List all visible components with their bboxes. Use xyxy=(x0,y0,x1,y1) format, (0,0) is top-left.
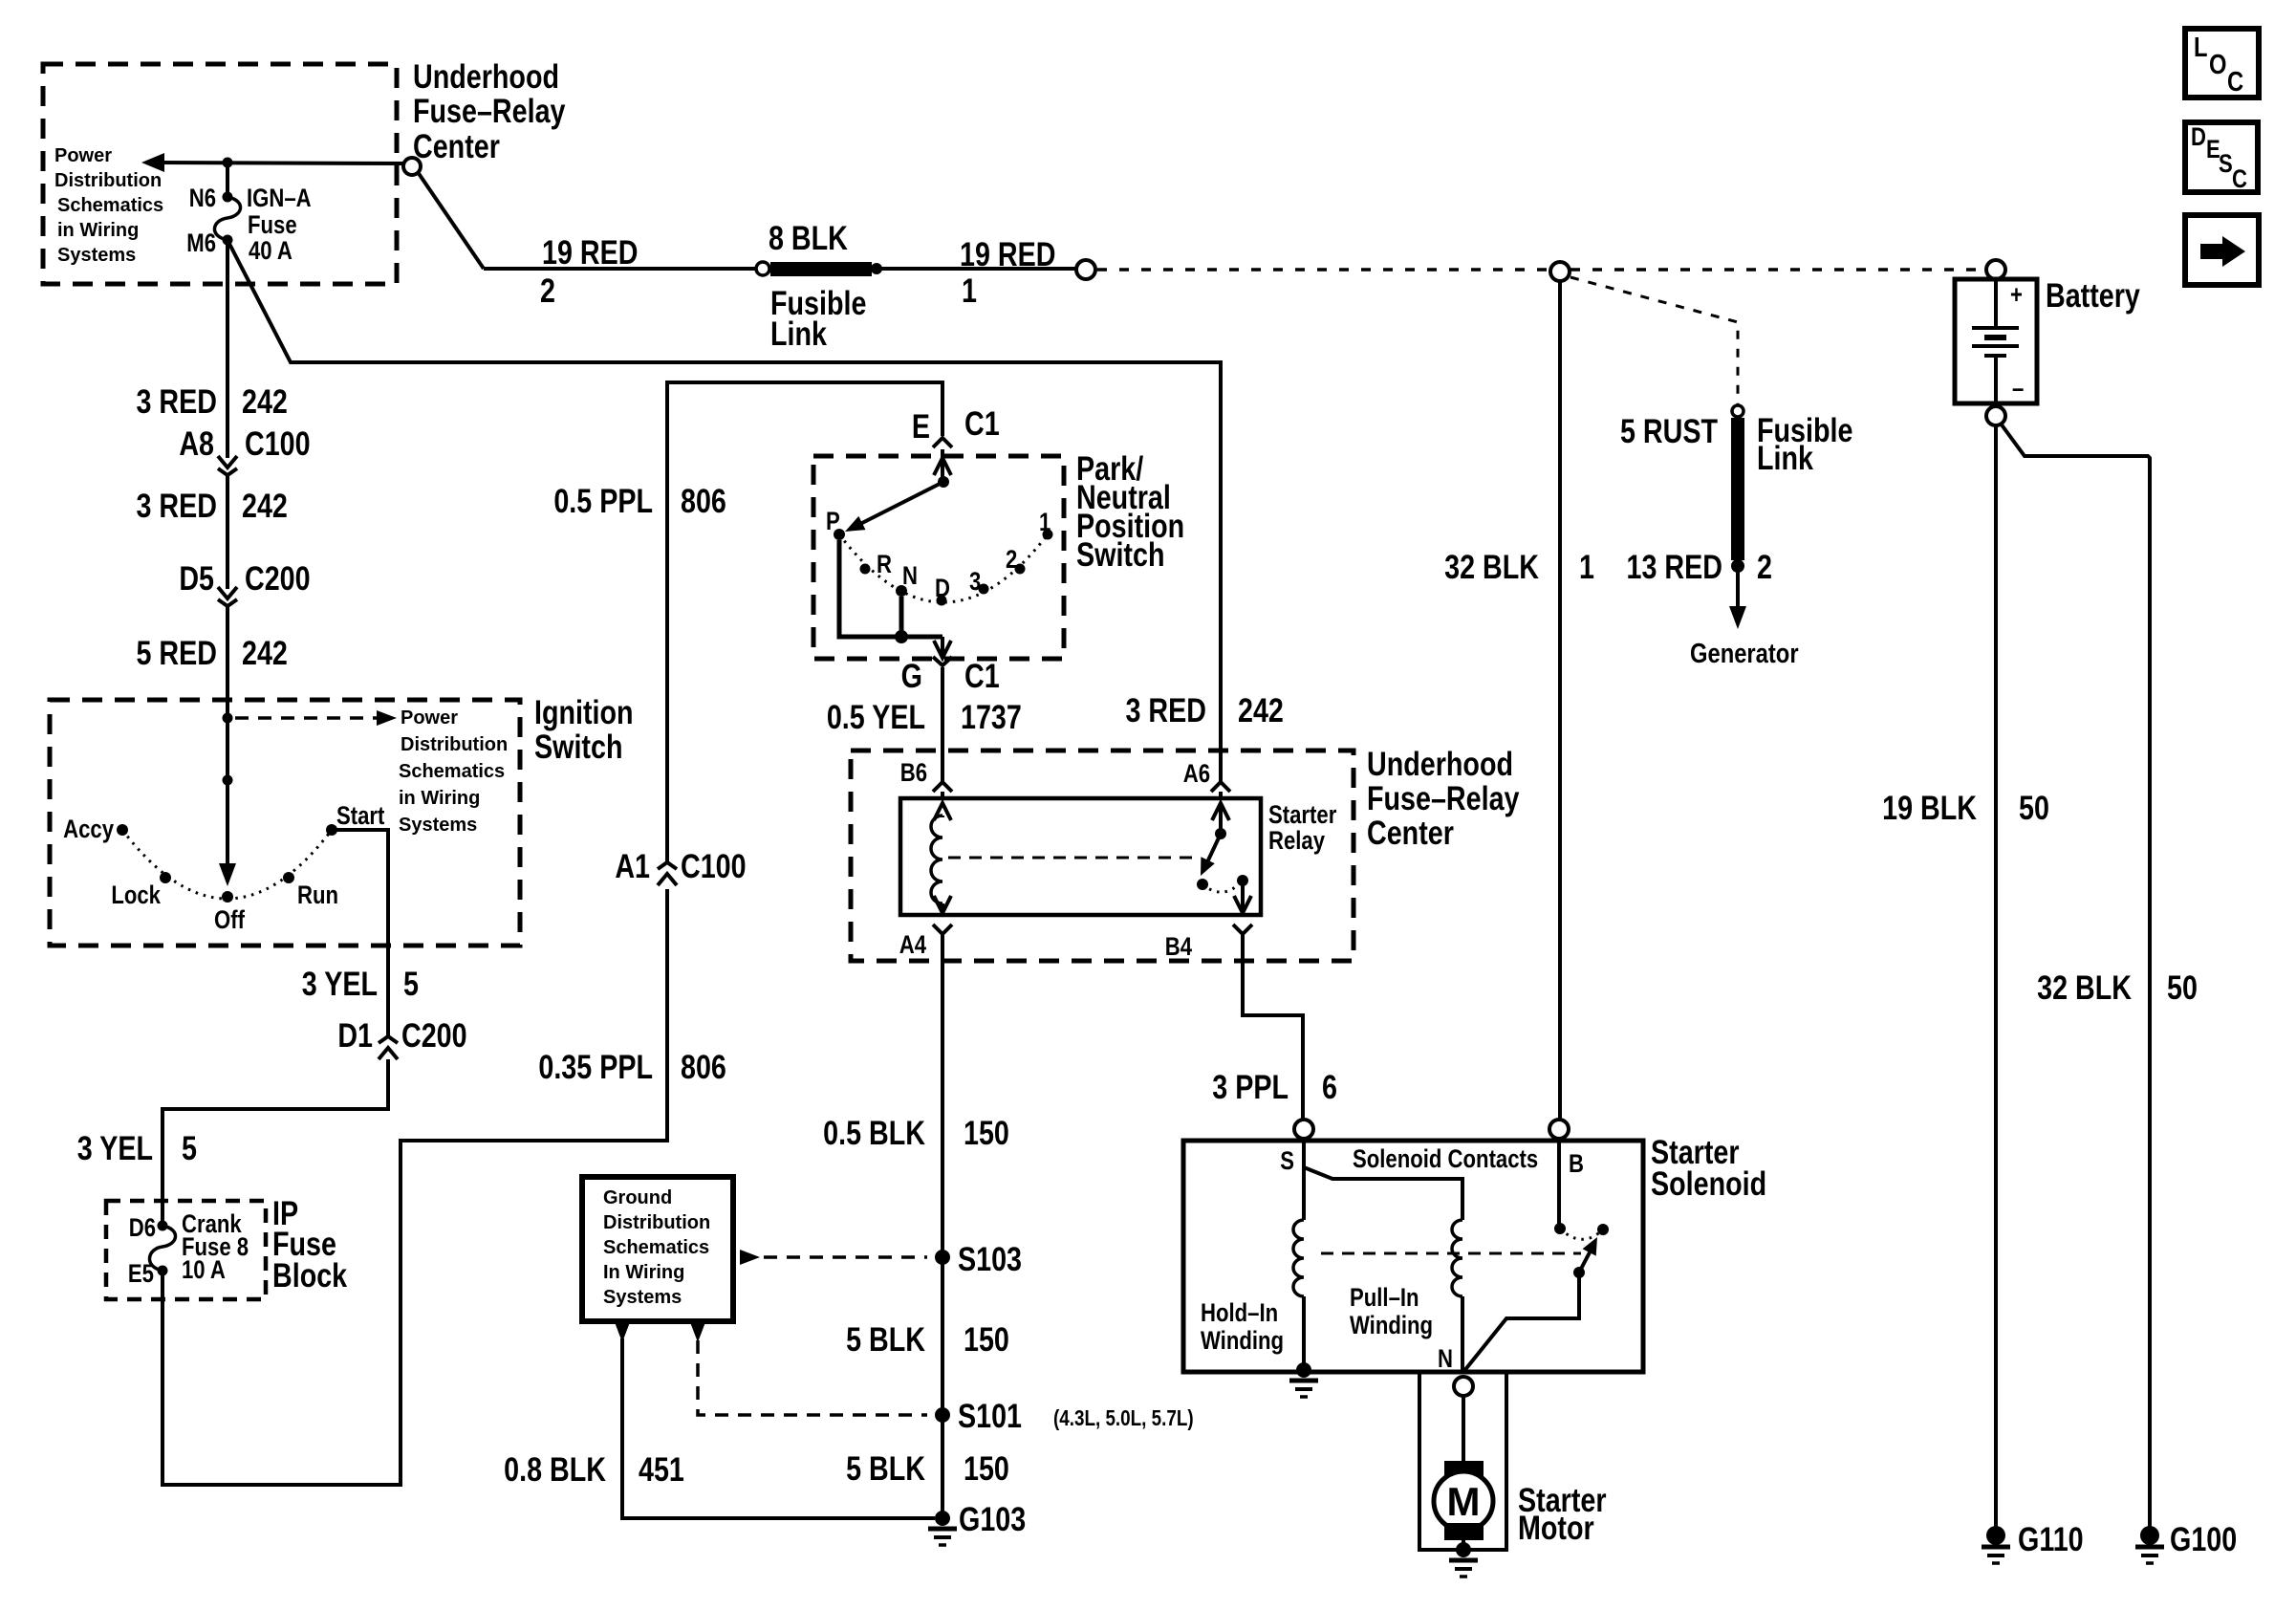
svg-text:E5: E5 xyxy=(128,1260,154,1289)
fuse Crank Fuse 8 10 A xyxy=(149,1226,175,1271)
note: Power Distribution Schematics in Wiring Systems xyxy=(54,145,163,266)
svg-text:5: 5 xyxy=(403,965,419,1002)
ground G110 xyxy=(1986,1526,2005,1545)
svg-text:5: 5 xyxy=(182,1129,197,1166)
terminal N xyxy=(1438,1345,1453,1374)
svg-text:Center: Center xyxy=(413,127,500,164)
dashed wire 5 RUST xyxy=(1570,277,1738,405)
svg-text:2: 2 xyxy=(540,272,555,309)
wire 32 BLK 50 (battery to G100) xyxy=(2001,424,2150,1527)
svg-text:451: 451 xyxy=(639,1450,684,1488)
connector A1 C100 xyxy=(658,862,677,885)
svg-text:32 BLK: 32 BLK xyxy=(2037,968,2132,1006)
relay coil xyxy=(931,803,951,913)
dashed line coil to contacts xyxy=(948,857,1198,859)
wire 0.5 YEL 1737 xyxy=(941,667,944,782)
relay contact input from A6 xyxy=(1219,804,1223,834)
svg-text:C100: C100 xyxy=(245,424,311,462)
contact D xyxy=(937,596,947,606)
starter motor frame xyxy=(1419,1372,1506,1550)
svg-text:In Wiring: In Wiring xyxy=(603,1262,684,1283)
svg-text:(4.3L, 5.0L, 5.7L): (4.3L, 5.0L, 5.7L) xyxy=(1053,1406,1194,1430)
wire 19 RED 2 xyxy=(484,267,756,271)
svg-text:Link: Link xyxy=(770,315,827,352)
svg-text:Link: Link xyxy=(1757,439,1813,476)
svg-text:S: S xyxy=(2219,150,2233,179)
fusible link 5 RUST xyxy=(1732,405,1744,417)
pin A6 xyxy=(1211,782,1230,792)
svg-text:19 BLK: 19 BLK xyxy=(1882,789,1977,826)
wire N to output junction xyxy=(899,597,904,637)
wire 0.5 PPL 806 xyxy=(667,382,942,862)
svg-text:Relay: Relay xyxy=(1268,827,1325,856)
svg-text:Lock: Lock xyxy=(111,881,161,910)
svg-text:Off: Off xyxy=(214,906,246,935)
wire 5 BLK 150 (below S101) xyxy=(846,1449,1009,1487)
svg-text:S: S xyxy=(1280,1147,1294,1176)
svg-text:1737: 1737 xyxy=(961,698,1022,735)
svg-text:A6: A6 xyxy=(1183,760,1210,789)
svg-text:50: 50 xyxy=(2019,789,2049,826)
contact P xyxy=(834,529,845,540)
svg-text:3 PPL: 3 PPL xyxy=(1212,1068,1289,1105)
fusible link 8 BLK xyxy=(756,262,769,275)
svg-text:40 A: 40 A xyxy=(249,237,292,266)
svg-text:D5: D5 xyxy=(179,559,214,597)
dashed wire to battery xyxy=(1570,268,1985,272)
svg-text:S101: S101 xyxy=(958,1397,1022,1434)
ignition switch dashed box xyxy=(50,700,520,946)
svg-text:D6: D6 xyxy=(129,1214,156,1243)
ground G100 xyxy=(2140,1526,2159,1545)
ground distribution box xyxy=(582,1177,733,1321)
underhood fuse-relay center dashed box (middle) xyxy=(851,751,1354,961)
hold-in winding xyxy=(1293,1220,1304,1296)
connector A8 C100 xyxy=(218,456,237,475)
svg-text:Winding: Winding xyxy=(1201,1327,1284,1356)
svg-text:C200: C200 xyxy=(245,559,311,597)
svg-text:0.8 BLK: 0.8 BLK xyxy=(504,1450,606,1488)
svg-text:C100: C100 xyxy=(681,847,747,884)
label Solenoid Contacts xyxy=(1353,1145,1538,1174)
svg-text:3 YEL: 3 YEL xyxy=(77,1129,153,1166)
contact Start xyxy=(326,824,337,836)
wire: feed to power distribution xyxy=(158,163,404,163)
svg-text:Systems: Systems xyxy=(399,815,477,836)
svg-text:Solenoid: Solenoid xyxy=(1651,1164,1766,1202)
svg-text:242: 242 xyxy=(242,487,288,524)
wire 3 RED 242 (below C100) xyxy=(226,475,229,589)
svg-text:5 RED: 5 RED xyxy=(136,634,217,671)
connector D5 C200 xyxy=(218,587,237,606)
svg-text:D: D xyxy=(2191,123,2206,152)
dotted arc of ignition positions xyxy=(122,830,332,899)
svg-text:50: 50 xyxy=(2167,968,2198,1006)
arrowhead to Off contact xyxy=(219,863,236,886)
next-page arrow box xyxy=(2185,215,2259,285)
svg-text:Fuse–Relay: Fuse–Relay xyxy=(413,92,566,129)
wire 3 YEL 5 to crank fuse xyxy=(162,1059,388,1222)
svg-text:Pull–In: Pull–In xyxy=(1350,1284,1419,1313)
svg-text:C: C xyxy=(2232,165,2247,194)
pin A4 xyxy=(933,925,952,934)
svg-text:6: 6 xyxy=(1322,1068,1337,1105)
wire to pin N6 xyxy=(226,163,229,197)
svg-text:3: 3 xyxy=(969,568,981,597)
svg-text:3 RED: 3 RED xyxy=(1125,691,1206,729)
ground G103 xyxy=(935,1511,950,1526)
svg-text:Accy: Accy xyxy=(63,816,114,844)
svg-text:Distribution: Distribution xyxy=(603,1212,710,1233)
svg-text:Ignition: Ignition xyxy=(534,693,634,730)
label IP Fuse Block xyxy=(272,1194,347,1294)
svg-text:A8: A8 xyxy=(179,424,214,462)
exit arrow G xyxy=(941,637,944,658)
svg-text:Hold–In: Hold–In xyxy=(1201,1299,1278,1328)
svg-text:Winding: Winding xyxy=(1350,1312,1433,1340)
svg-text:150: 150 xyxy=(964,1449,1009,1487)
wire S to pull-in winding xyxy=(1304,1167,1462,1220)
svg-text:–: – xyxy=(2012,375,2024,403)
desc box xyxy=(2185,122,2258,192)
arrowhead left xyxy=(141,153,164,172)
svg-text:1: 1 xyxy=(1579,548,1594,585)
svg-text:0.5 YEL: 0.5 YEL xyxy=(827,698,925,735)
arrowhead to generator xyxy=(1729,606,1746,629)
svg-text:19 RED: 19 RED xyxy=(960,235,1055,272)
junction node xyxy=(223,713,233,724)
svg-text:Switch: Switch xyxy=(1076,535,1164,573)
svg-text:D: D xyxy=(935,575,950,603)
label Underhood Fuse-Relay Center (middle) xyxy=(1367,745,1520,851)
svg-text:B6: B6 xyxy=(900,759,927,788)
junction node xyxy=(938,476,949,488)
svg-text:Solenoid Contacts: Solenoid Contacts xyxy=(1353,1145,1538,1174)
relay output contact xyxy=(1237,875,1248,886)
pin N6 xyxy=(223,192,233,203)
svg-text:D1: D1 xyxy=(337,1016,373,1054)
note: Power Distribution Schematics in Wiring Systems xyxy=(399,707,508,836)
svg-text:3 RED: 3 RED xyxy=(136,487,217,524)
svg-text:1: 1 xyxy=(962,272,977,309)
junction node xyxy=(223,158,233,168)
svg-text:Starter: Starter xyxy=(1268,801,1337,830)
contact N xyxy=(896,585,907,597)
connector G C1 xyxy=(933,657,952,665)
starter relay box xyxy=(900,798,1261,915)
dashed ground wire to S101 xyxy=(690,1322,705,1342)
svg-text:Schematics: Schematics xyxy=(399,761,505,782)
wire 19 RED 1 xyxy=(877,267,1076,271)
svg-text:M6: M6 xyxy=(186,229,216,258)
svg-text:8 BLK: 8 BLK xyxy=(769,219,848,256)
battery xyxy=(1955,260,2037,425)
contact Accy xyxy=(117,824,128,836)
svg-text:Center: Center xyxy=(1367,814,1454,851)
underhood fuse-relay center dashed box (top left) xyxy=(43,64,397,284)
svg-text:150: 150 xyxy=(964,1114,1009,1151)
connector D1 C200 xyxy=(379,1036,398,1059)
wire into switch xyxy=(226,700,229,866)
svg-text:Fuse–Relay: Fuse–Relay xyxy=(1367,779,1520,816)
label Ignition Switch xyxy=(534,693,634,765)
terminal circle on box edge xyxy=(403,158,421,175)
svg-text:N: N xyxy=(1438,1345,1453,1374)
starter motor M xyxy=(1434,1461,1493,1550)
svg-text:O: O xyxy=(2209,49,2226,80)
relay switch arm xyxy=(1206,834,1221,864)
svg-text:5 BLK: 5 BLK xyxy=(846,1449,925,1487)
label Generator xyxy=(1690,638,1799,669)
wire 13 RED 2 to generator xyxy=(1736,566,1740,612)
dotted arc relay contact xyxy=(1202,881,1243,892)
splice S103 xyxy=(935,1250,950,1265)
svg-text:Block: Block xyxy=(272,1256,347,1294)
svg-text:0.35 PPL: 0.35 PPL xyxy=(538,1048,653,1085)
main feed wire M6 to A6 (3 RED 242) xyxy=(229,244,1221,782)
label Starter Motor xyxy=(1518,1481,1607,1546)
svg-text:3 RED: 3 RED xyxy=(136,382,217,420)
contact Off xyxy=(222,891,233,903)
svg-text:242: 242 xyxy=(242,382,288,420)
dashed line windings to contacts xyxy=(1321,1252,1581,1255)
wire B6 to relay xyxy=(941,792,944,798)
svg-text:13 RED: 13 RED xyxy=(1627,548,1722,585)
svg-text:Battery: Battery xyxy=(2046,276,2140,314)
motor ground xyxy=(1456,1542,1471,1557)
svg-text:B4: B4 xyxy=(1165,933,1193,962)
svg-text:Distribution: Distribution xyxy=(54,170,162,191)
svg-text:Systems: Systems xyxy=(57,245,136,266)
svg-text:P: P xyxy=(826,508,840,536)
svg-text:A1: A1 xyxy=(615,847,650,884)
IP fuse block dashed box xyxy=(106,1201,266,1299)
svg-text:Ground: Ground xyxy=(603,1187,672,1208)
svg-text:Power: Power xyxy=(54,145,112,166)
svg-text:L: L xyxy=(2194,32,2208,63)
svg-text:C1: C1 xyxy=(964,657,1000,694)
loc box xyxy=(2185,29,2259,98)
splice S101 xyxy=(935,1407,950,1423)
label Starter Relay xyxy=(1268,801,1337,856)
dashed arrow to note xyxy=(235,716,380,720)
svg-text:Underhood: Underhood xyxy=(1367,745,1513,782)
wire 19 BLK 50 (battery to G110) xyxy=(1994,425,1998,1527)
svg-text:G: G xyxy=(901,657,922,694)
svg-text:242: 242 xyxy=(1238,691,1284,729)
svg-text:150: 150 xyxy=(964,1320,1009,1358)
pull-in winding xyxy=(1452,1220,1462,1296)
svg-text:C200: C200 xyxy=(401,1016,467,1054)
junction node xyxy=(223,775,233,786)
wire 32 BLK 1 (circle to solenoid B) xyxy=(1558,281,1562,1120)
dotted arc solenoid contact xyxy=(1560,1229,1603,1239)
pin B4 xyxy=(1233,925,1252,934)
pin D6 xyxy=(158,1221,168,1231)
wire 3 PPL 6 (B4 to solenoid S) xyxy=(1243,934,1303,1120)
contact 3 xyxy=(979,584,989,595)
svg-text:806: 806 xyxy=(681,482,726,519)
svg-text:G100: G100 xyxy=(2170,1520,2237,1557)
svg-text:Generator: Generator xyxy=(1690,638,1799,669)
svg-text:0.5 PPL: 0.5 PPL xyxy=(553,482,653,519)
svg-text:M: M xyxy=(1447,1479,1481,1524)
label Battery xyxy=(2046,276,2140,314)
contact 1 xyxy=(1043,530,1053,540)
svg-text:B: B xyxy=(1569,1150,1584,1179)
svg-text:Fuse: Fuse xyxy=(248,211,297,240)
starter solenoid box xyxy=(1183,1141,1643,1372)
svg-text:Underhood: Underhood xyxy=(413,57,559,95)
wire P to output xyxy=(839,540,942,637)
solenoid ground (hold-in) xyxy=(1296,1362,1311,1378)
svg-text:10 A: 10 A xyxy=(182,1256,226,1285)
svg-text:3 YEL: 3 YEL xyxy=(302,965,378,1002)
svg-text:C: C xyxy=(2227,66,2243,98)
park/neutral position switch dashed box xyxy=(813,456,1064,659)
svg-text:IGN–A: IGN–A xyxy=(247,185,312,213)
contact Lock xyxy=(160,872,171,883)
svg-text:5 RUST: 5 RUST xyxy=(1620,412,1718,449)
solenoid switch arm xyxy=(1579,1252,1590,1273)
svg-text:G103: G103 xyxy=(959,1500,1026,1537)
svg-text:806: 806 xyxy=(681,1048,726,1085)
svg-text:Run: Run xyxy=(297,881,338,910)
switch arm to P xyxy=(858,482,943,525)
label Park/Neutral Position Switch xyxy=(1076,449,1184,573)
svg-text:Schematics: Schematics xyxy=(603,1237,709,1258)
terminal B xyxy=(1549,1120,1569,1139)
svg-text:N: N xyxy=(902,562,918,591)
svg-text:E: E xyxy=(912,407,930,445)
wire 3 RED 242 (M6 down) xyxy=(226,240,229,458)
svg-text:2: 2 xyxy=(1757,548,1772,585)
ground wire 0.8 BLK 451 xyxy=(615,1322,630,1342)
contact R xyxy=(860,564,871,575)
svg-text:Switch: Switch xyxy=(534,728,622,765)
terminal S xyxy=(1294,1120,1313,1139)
label Starter Solenoid xyxy=(1651,1133,1766,1202)
wire 0.35 PPL 806 (crank fuse output loop) xyxy=(162,889,667,1485)
terminal circle xyxy=(1550,262,1570,281)
svg-text:S103: S103 xyxy=(958,1240,1022,1277)
svg-text:Distribution: Distribution xyxy=(401,734,508,755)
svg-text:242: 242 xyxy=(242,634,288,671)
svg-text:Start: Start xyxy=(336,802,384,831)
connector E C1 xyxy=(933,438,952,447)
svg-text:32 BLK: 32 BLK xyxy=(1444,548,1539,585)
svg-text:19 RED: 19 RED xyxy=(542,233,638,271)
dashed wire to S103 xyxy=(740,1250,760,1265)
wire S to hold-in winding xyxy=(1302,1139,1306,1220)
wire B to contact xyxy=(1557,1139,1561,1229)
svg-text:in Wiring: in Wiring xyxy=(57,220,139,241)
wire Start to D1 xyxy=(332,830,388,1036)
svg-text:0.5 BLK: 0.5 BLK xyxy=(823,1114,925,1151)
dotted arc of gear positions xyxy=(839,534,1048,602)
contact Run xyxy=(283,872,294,883)
note: Ground Distribution Schematics In Wiring Systems xyxy=(603,1187,710,1308)
svg-text:Motor: Motor xyxy=(1518,1509,1594,1546)
svg-text:R: R xyxy=(877,551,892,579)
pin B6 xyxy=(933,782,952,792)
fuse IGN-A 40 A xyxy=(214,197,240,240)
wire E into switch with up arrow xyxy=(941,449,944,482)
wire 5 RED 242 xyxy=(226,606,229,700)
svg-text:1: 1 xyxy=(1039,509,1051,537)
svg-text:+: + xyxy=(2010,281,2023,310)
wire A6 to relay xyxy=(1219,792,1223,798)
svg-text:N6: N6 xyxy=(189,185,216,213)
svg-text:A4: A4 xyxy=(899,931,927,960)
wire contact to N xyxy=(1463,1273,1579,1372)
label: Underhood Fuse-Relay Center (top) xyxy=(413,57,566,164)
svg-text:G110: G110 xyxy=(2018,1520,2084,1557)
svg-text:Systems: Systems xyxy=(603,1287,682,1308)
contact 2 xyxy=(1015,564,1026,575)
pin M6 xyxy=(223,235,233,246)
wire 5 BLK 150 xyxy=(846,1320,1009,1358)
terminal circle xyxy=(1076,260,1095,279)
svg-text:C1: C1 xyxy=(964,404,1000,442)
wire: diagonal from terminal to 19 RED xyxy=(418,172,484,269)
dashed wire to next terminal xyxy=(1097,268,1549,272)
wire 0.5 BLK 150 (A4 to grounds) xyxy=(941,934,944,1518)
pin E5 xyxy=(158,1266,168,1276)
wire N to motor xyxy=(1462,1396,1465,1463)
svg-text:in Wiring: in Wiring xyxy=(399,788,480,809)
svg-text:Power: Power xyxy=(401,707,458,729)
svg-text:2: 2 xyxy=(1006,546,1017,575)
svg-text:5 BLK: 5 BLK xyxy=(846,1320,925,1358)
svg-text:Schematics: Schematics xyxy=(57,195,163,216)
